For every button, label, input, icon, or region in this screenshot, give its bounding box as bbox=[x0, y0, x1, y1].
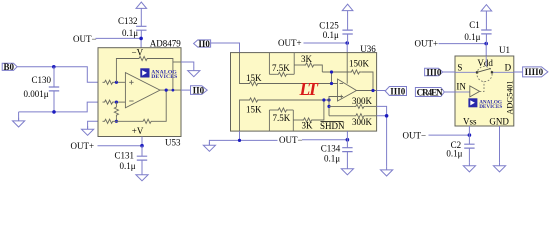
svg-text:CR4EN: CR4EN bbox=[417, 88, 444, 98]
dashed control line bbox=[480, 82, 484, 92]
wire V- pin stub bbox=[346, 131, 348, 140]
ground below C134 bbox=[341, 166, 353, 175]
internal wire -IN entry (U36) bbox=[240, 53, 248, 84]
port II0 (output) bbox=[191, 86, 208, 95]
svg-text:III0: III0 bbox=[390, 86, 406, 96]
svg-text:0.1μ: 0.1μ bbox=[446, 148, 462, 158]
wire CR4EN to IN pin bbox=[444, 91, 455, 93]
svg-text:II0: II0 bbox=[198, 39, 210, 49]
svg-text:−V: −V bbox=[132, 48, 144, 58]
svg-text:OUT−: OUT− bbox=[403, 131, 427, 141]
svg-text:Vss: Vss bbox=[463, 117, 477, 127]
junction dot output feedback bbox=[165, 89, 168, 92]
junction dot -V / C132 bbox=[139, 37, 143, 41]
wire OUT- to +IN entry and ground bbox=[209, 131, 277, 145]
wire op-amp output bbox=[160, 89, 181, 91]
resistor 3K top (U36) bbox=[294, 64, 303, 66]
svg-text:II0: II0 bbox=[193, 86, 205, 96]
switch circle (U1) bbox=[477, 66, 492, 81]
ground below C2 bbox=[463, 163, 475, 172]
IC body U36 bbox=[231, 53, 377, 132]
pin stub M1 bottom (U36) bbox=[292, 110, 294, 131]
wire U53 row3 to ground bbox=[88, 121, 98, 129]
junction dot row3 bbox=[115, 120, 118, 123]
junction dot +V / C131 bbox=[140, 144, 144, 148]
junction dot V- / C134 bbox=[346, 138, 350, 142]
resistor 15K top (U36) bbox=[248, 81, 260, 85]
resistor 15K bottom (U36) bbox=[248, 98, 260, 102]
resistor R1 row1 (U53) bbox=[103, 80, 115, 84]
svg-text:ADG5401: ADG5401 bbox=[506, 80, 515, 114]
svg-text:C131: C131 bbox=[115, 150, 135, 160]
svg-text:III0: III0 bbox=[426, 67, 442, 77]
port B0 bbox=[2, 63, 17, 70]
power arrow above C125 bbox=[342, 4, 353, 10]
wire OUT+ to Vdd pin bbox=[439, 43, 487, 45]
capacitor C2 bbox=[468, 135, 470, 144]
resistor 300K upper (U36) bbox=[329, 105, 354, 107]
wire C130 junction to bend into U53 row1 bbox=[54, 67, 98, 83]
svg-text:OUT+: OUT+ bbox=[71, 141, 95, 151]
svg-text:0.1μ: 0.1μ bbox=[323, 30, 339, 40]
svg-text:0.001μ: 0.001μ bbox=[24, 89, 49, 99]
resistor 7.5K bottom (U36) bbox=[269, 109, 276, 111]
svg-text:C125: C125 bbox=[319, 20, 339, 30]
wire OUT- to Vss pin bbox=[429, 134, 470, 136]
svg-text:U36: U36 bbox=[360, 44, 376, 54]
resistor 300K lower (U36) bbox=[329, 115, 354, 117]
junction dot OUT- pin bbox=[238, 139, 241, 142]
svg-text:DEVICES: DEVICES bbox=[479, 104, 502, 110]
capacitor C1 bbox=[481, 30, 491, 34]
svg-text:IN: IN bbox=[456, 82, 466, 92]
wire GND pin to ground bbox=[499, 126, 501, 163]
svg-text:0.1μ: 0.1μ bbox=[464, 32, 480, 42]
feedback node row (U36) bbox=[322, 71, 349, 73]
wire Vdd pin stub bbox=[485, 44, 487, 56]
wire U36 output to III0 port bbox=[377, 90, 386, 92]
port III0 (input to S) bbox=[425, 68, 443, 75]
IC body U1 ADG5401 bbox=[455, 56, 514, 126]
svg-text:OUT−: OUT− bbox=[279, 135, 303, 145]
wire III0 to S pin bbox=[443, 71, 455, 73]
svg-text:150K: 150K bbox=[349, 59, 370, 69]
wire row1 to op-amp + bbox=[115, 81, 126, 83]
wire feedback to -input bbox=[331, 72, 333, 84]
resistor R4 row3 right (U53) bbox=[141, 119, 153, 123]
svg-text:0.1μ: 0.1μ bbox=[120, 161, 136, 171]
svg-text:S: S bbox=[457, 63, 462, 73]
op-amp U36 bbox=[338, 79, 357, 101]
internal wire +IN entry (U36) bbox=[240, 100, 248, 131]
port II0 (input, top) bbox=[194, 40, 211, 47]
wire V+ pin stub bbox=[346, 43, 348, 53]
ground left of C130 bbox=[18, 112, 20, 121]
wire -input row bbox=[260, 83, 338, 85]
wire U53 output to II0 port bbox=[181, 89, 191, 91]
ground below C131 bbox=[136, 172, 148, 181]
junction dot V+ / C125 bbox=[345, 41, 349, 45]
op-amp U53 bbox=[125, 73, 160, 108]
capacitor C134 bbox=[346, 140, 348, 148]
capacitor C130 bbox=[53, 67, 55, 87]
svg-text:+V: +V bbox=[132, 126, 144, 136]
svg-text:300K: 300K bbox=[352, 117, 373, 127]
svg-text:0.1μ: 0.1μ bbox=[324, 153, 340, 163]
svg-text:U1: U1 bbox=[499, 45, 510, 55]
power arrow above C132 bbox=[136, 2, 147, 8]
svg-text:DEVICES: DEVICES bbox=[151, 74, 177, 80]
svg-text:U53: U53 bbox=[165, 138, 181, 148]
feedback resistor (U53 top) bbox=[116, 59, 137, 83]
junction dot Vdd / C1 bbox=[484, 42, 488, 46]
svg-text:15K: 15K bbox=[246, 105, 262, 115]
svg-text:IIII0: IIII0 bbox=[525, 67, 544, 77]
wire +input to op-amp bbox=[329, 97, 340, 116]
junction dot row1 bbox=[115, 81, 118, 84]
wire 300K pins to ground (right of U36) bbox=[377, 106, 387, 166]
junction dot row2 bbox=[115, 101, 118, 104]
wire C130 bottom rail bbox=[19, 102, 98, 112]
resistor R3 row3 (U53) bbox=[103, 119, 115, 123]
wire OUT- to -V pin bbox=[96, 38, 142, 47]
internal wire S to switch bbox=[455, 71, 477, 73]
capacitor C132 bbox=[136, 26, 146, 30]
svg-text:OUT−: OUT− bbox=[73, 34, 97, 44]
svg-text:OUT+: OUT+ bbox=[415, 38, 439, 48]
svg-text:SHDN: SHDN bbox=[320, 121, 345, 131]
switch arm bbox=[477, 68, 491, 72]
power arrow above C1 bbox=[481, 5, 492, 11]
pin stub M10 top (U36) bbox=[268, 53, 270, 75]
vertical resistor (U53) bbox=[115, 102, 117, 105]
ground below U53 row3 bbox=[82, 126, 94, 135]
internal wire IN to buffer bbox=[455, 91, 470, 93]
svg-text:C132: C132 bbox=[118, 16, 138, 26]
port IIII0 bbox=[523, 67, 548, 77]
svg-text:GND: GND bbox=[489, 117, 509, 127]
wire OUT- to V- pin bbox=[302, 139, 347, 141]
svg-text:B0: B0 bbox=[4, 62, 15, 72]
junction dot Vss / C2 bbox=[468, 133, 472, 137]
port III0 (output) bbox=[385, 87, 406, 96]
resistor 7.5K top (U36) bbox=[269, 73, 276, 75]
svg-text:D: D bbox=[505, 63, 512, 73]
internal wire switch to D bbox=[492, 71, 514, 73]
wire II0 to U36 -IN pin bbox=[210, 43, 239, 53]
ground REF (U53) bbox=[188, 67, 200, 76]
ground below GND pin bbox=[493, 163, 505, 172]
wire Vss pin stub bbox=[468, 126, 470, 135]
svg-text:300K: 300K bbox=[352, 96, 373, 106]
junction dot C130 bottom bbox=[52, 110, 56, 114]
svg-text:3K: 3K bbox=[301, 54, 313, 64]
resistor R2 row2 (U53) bbox=[103, 100, 115, 104]
capacitor C131 bbox=[141, 146, 143, 157]
wire op-amp output (U36) bbox=[357, 90, 377, 92]
junction dot net B0 bbox=[52, 65, 56, 69]
svg-text:15K: 15K bbox=[246, 73, 262, 83]
buffer triangle (U1) bbox=[470, 86, 480, 97]
port CR4EN bbox=[415, 88, 444, 97]
svg-text:7.5K: 7.5K bbox=[272, 63, 290, 73]
switch contacts bbox=[476, 71, 478, 73]
wire REF to ground (right of U53) bbox=[181, 62, 194, 68]
wire D to IIII0 port bbox=[514, 71, 523, 73]
internal wire V+ to op-amp (U36) bbox=[346, 53, 348, 84]
internal wire Vdd stub bbox=[485, 56, 487, 67]
svg-text:C130: C130 bbox=[32, 75, 52, 85]
svg-text:0.1μ: 0.1μ bbox=[122, 28, 138, 38]
wire B0 to C130 junction bbox=[17, 66, 54, 68]
Analog Devices logo (U53) bbox=[140, 68, 177, 80]
svg-text:C1: C1 bbox=[469, 20, 480, 30]
junction dots +input node bbox=[322, 98, 325, 101]
pin stub M10 bottom (U36) bbox=[268, 110, 270, 131]
Analog Devices logo (U1) bbox=[468, 98, 502, 110]
IC body U53 AD8479 bbox=[98, 48, 181, 137]
capacitor C125 bbox=[342, 30, 352, 34]
svg-text:7.5K: 7.5K bbox=[273, 113, 291, 123]
ground left of OUT- (middle) bbox=[203, 142, 215, 151]
ground below U36 right bbox=[381, 167, 393, 176]
REF pin wire (U53) bbox=[173, 61, 181, 63]
pin stub M1 top (U36) bbox=[293, 53, 295, 75]
resistor 150K (U36) bbox=[349, 70, 361, 74]
resistor 3K bottom (U36) bbox=[293, 119, 301, 121]
wire OUT+ to V+ pin bbox=[304, 42, 348, 44]
svg-text:OUT+: OUT+ bbox=[278, 38, 302, 48]
svg-text:Vdd: Vdd bbox=[477, 58, 493, 68]
wire +input row bbox=[260, 99, 330, 101]
svg-text:AD8479: AD8479 bbox=[150, 38, 181, 48]
svg-text:C134: C134 bbox=[321, 144, 341, 154]
svg-text:3K: 3K bbox=[302, 120, 314, 130]
wire +V pin to OUT+ junction bbox=[98, 137, 143, 146]
